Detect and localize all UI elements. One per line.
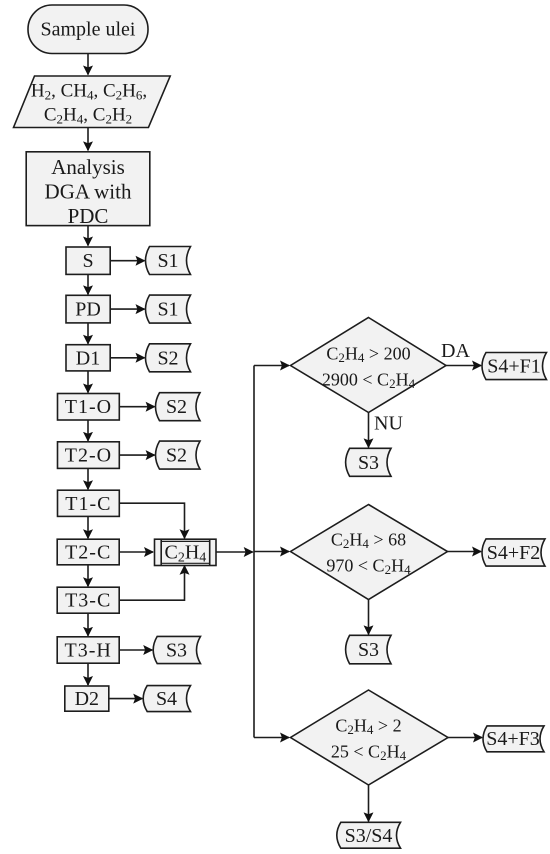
data parallelogram: gas list <box>14 76 171 128</box>
wire: T3-H to stored S3 <box>119 649 152 651</box>
wire: D2 to stored S4 <box>109 698 142 700</box>
node D1 <box>66 345 110 371</box>
wire: PD to stored S1 <box>110 308 144 310</box>
wire: C2H4 to junction <box>216 551 253 553</box>
wire: terminator to data parallelogram <box>87 54 89 75</box>
process: Analysis DGA with PDC <box>26 152 150 226</box>
svg-text:T1-C: T1-C <box>65 493 111 515</box>
stored data S3 (below decision 1) <box>346 448 391 476</box>
svg-text:C2H4 > 68: C2H4 > 68 <box>331 530 406 552</box>
svg-text:S2: S2 <box>166 445 187 467</box>
svg-text:T3-H: T3-H <box>65 640 112 662</box>
wire: vertical bus line <box>253 366 255 738</box>
svg-text:Sample ulei: Sample ulei <box>41 18 136 40</box>
node S <box>66 247 110 274</box>
svg-text:S4: S4 <box>156 688 177 710</box>
stored data S1 (row S) <box>146 247 191 275</box>
wire: process to node S <box>87 226 89 246</box>
node T2-C <box>57 539 119 565</box>
svg-text:S4+F2: S4+F2 <box>487 542 541 564</box>
wire: bus to decision 1 <box>254 365 289 367</box>
wire: T1-C to T2-C <box>87 516 89 538</box>
decision 2: C2H4 > 68 <box>291 505 448 600</box>
svg-text:S4+F1: S4+F1 <box>487 356 541 378</box>
svg-text:S1: S1 <box>157 299 178 321</box>
node T1-C <box>58 490 120 516</box>
wire: decision 2 to S3 <box>368 600 370 635</box>
wire: T2-O to stored S2 <box>119 454 154 456</box>
decision 1: C2H4 > 200 <box>291 318 447 413</box>
svg-text:S3: S3 <box>166 640 187 662</box>
stored data S4+F3 <box>483 726 544 752</box>
svg-text:S3: S3 <box>358 639 379 661</box>
svg-text:PDC: PDC <box>68 204 109 228</box>
svg-text:T3-C: T3-C <box>65 590 111 612</box>
wire: decision 1 NU to S3 <box>368 413 370 448</box>
wire: decision 3 to S4+F3 <box>448 737 482 739</box>
node T1-O <box>58 394 120 421</box>
wire: D1 to stored S2 <box>110 357 144 359</box>
svg-text:2900 < C2H4: 2900 < C2H4 <box>322 369 416 391</box>
wire: T1-C elbow to C2H4 top <box>119 503 184 538</box>
decision 3: C2H4 > 2 <box>291 690 449 785</box>
wire: decision 3 to S3/S4 <box>368 785 370 821</box>
stored data S4+F2 <box>482 539 545 566</box>
wire: T1-O to stored S2 <box>119 406 154 408</box>
svg-text:25 < C2H4: 25 < C2H4 <box>331 741 407 763</box>
svg-text:T2-O: T2-O <box>65 445 112 467</box>
svg-text:DGA with: DGA with <box>45 180 132 204</box>
wire: bus to decision 3 <box>254 737 289 739</box>
wire: T2-O to T1-C <box>87 468 89 489</box>
svg-text:DA: DA <box>441 340 470 362</box>
svg-text:Analysis: Analysis <box>51 155 125 179</box>
terminator: Sample ulei <box>28 5 148 54</box>
wire: S to PD <box>87 274 89 294</box>
stored data S2 (row D1) <box>146 344 191 372</box>
node D2 <box>65 686 109 711</box>
wire: decision 2 to S4+F2 <box>448 551 482 553</box>
node T3-H <box>57 637 119 663</box>
svg-text:S1: S1 <box>157 250 178 272</box>
wire: T3-C to T3-H <box>87 613 89 636</box>
wire: PD to D1 <box>87 323 89 344</box>
svg-text:S3/S4: S3/S4 <box>345 825 393 847</box>
svg-text:S3: S3 <box>358 452 379 474</box>
stored data S4+F1 <box>482 353 547 380</box>
wire: S to stored S1 <box>110 260 144 262</box>
svg-text:970 < C2H4: 970 < C2H4 <box>326 555 411 577</box>
node T3-C <box>57 587 119 613</box>
stored data S2 (row T2-O) <box>156 441 201 469</box>
stored data S3/S4 <box>337 822 401 848</box>
node PD <box>66 295 110 323</box>
wire: T3-C elbow to C2H4 bottom <box>119 566 184 600</box>
node T2-O <box>58 442 120 469</box>
svg-text:T1-O: T1-O <box>65 396 112 418</box>
stored data S3 (row T3-H) <box>153 636 200 663</box>
predefined process C2H4 <box>155 539 217 565</box>
wire: T2-C to T3-C <box>87 565 89 586</box>
stored data S3 (below decision 2) <box>346 635 391 664</box>
wire: T1-O to T2-O <box>87 420 89 441</box>
wire: T2-C to C2H4 box <box>119 551 153 553</box>
stored data S4 (row D2) <box>143 686 190 712</box>
wire: junction to decision 2 <box>254 551 289 553</box>
wire: D1 to T1-O <box>87 371 89 393</box>
stored data S1 (row PD) <box>146 295 191 323</box>
svg-text:S: S <box>82 250 93 272</box>
svg-text:S2: S2 <box>166 396 187 418</box>
svg-text:PD: PD <box>75 299 101 321</box>
stored data S2 (row T1-O) <box>156 393 201 421</box>
svg-text:S2: S2 <box>157 347 178 369</box>
wire: parallelogram to process box <box>87 128 89 151</box>
wire: decision 1 DA to S4+F1 <box>446 365 481 367</box>
svg-text:T2-C: T2-C <box>65 542 111 564</box>
svg-text:D1: D1 <box>76 347 100 369</box>
svg-text:D2: D2 <box>75 688 99 710</box>
svg-text:S4+F3: S4+F3 <box>486 728 540 750</box>
svg-text:NU: NU <box>374 413 403 435</box>
wire: T3-H to D2 <box>87 663 89 685</box>
